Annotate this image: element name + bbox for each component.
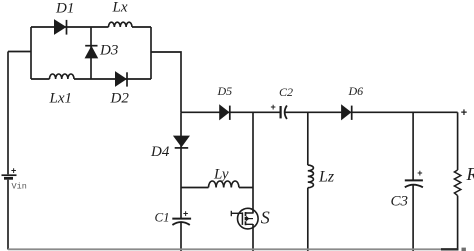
svg-text:D3: D3: [99, 43, 118, 59]
svg-text:C1: C1: [155, 210, 170, 225]
svg-text:+: +: [461, 107, 467, 119]
inductor Lx: [109, 22, 133, 27]
svg-text:Vin: Vin: [12, 182, 27, 192]
diode D6: [342, 105, 352, 120]
battery Vin: [2, 52, 17, 250]
wire input loop bottom branch: [31, 78, 151, 80]
output minus mark bottom-right: [462, 248, 466, 251]
inductor Lx1: [50, 74, 75, 79]
main horizontal wire (right of C2): [286, 111, 458, 113]
svg-text:D2: D2: [110, 91, 130, 107]
svg-text:Ly: Ly: [213, 167, 229, 183]
capacitor C3: [405, 180, 423, 251]
svg-text:R: R: [466, 164, 474, 184]
svg-text:D6: D6: [348, 84, 364, 98]
svg-text:D4: D4: [150, 144, 170, 160]
svg-text:+: +: [183, 209, 188, 219]
wire right tap to main node: [151, 52, 181, 112]
inductor Lz: [308, 165, 314, 188]
wire Lz branch upper: [307, 112, 309, 165]
wire C3 branch upper: [412, 112, 414, 180]
svg-text:+: +: [417, 168, 422, 178]
svg-text:C3: C3: [391, 194, 409, 210]
svg-text:Lx: Lx: [112, 0, 128, 15]
inductor Ly: [209, 181, 239, 188]
wire switch branch upper: [252, 112, 254, 213]
main horizontal wire (left of C2): [181, 111, 280, 113]
diode D1: [55, 20, 67, 35]
bottom wire dark segment near right corner: [441, 248, 459, 250]
wire input loop left side: [30, 27, 32, 79]
wire Ly branch: [181, 187, 253, 189]
capacitor C1: [172, 219, 191, 251]
bottom return wire: [8, 248, 441, 250]
svg-text:D5: D5: [217, 84, 233, 98]
diode D3 (pointing up): [85, 46, 97, 58]
svg-text:C2: C2: [279, 85, 293, 99]
wire input loop top branch: [31, 26, 151, 28]
wire right edge upper: [457, 112, 459, 170]
diode D5: [220, 105, 230, 120]
switch S (MOSFET in circle): [231, 208, 258, 229]
svg-text:D1: D1: [55, 1, 74, 17]
svg-text:Lx1: Lx1: [49, 91, 73, 107]
resistor R: [454, 170, 460, 196]
wire D4/C1 branch vertical: [180, 112, 182, 218]
svg-text:S: S: [261, 208, 270, 228]
svg-text:+: +: [11, 166, 16, 176]
diode D2: [116, 72, 128, 87]
svg-text:Lz: Lz: [318, 169, 335, 186]
wire battery-top to input loop: [8, 51, 31, 53]
wire right edge lower: [457, 196, 459, 250]
wire switch branch lower: [252, 224, 254, 251]
wire input loop middle vertical: [90, 27, 92, 79]
svg-text:+: +: [271, 102, 276, 112]
wire Lz branch lower: [307, 188, 309, 251]
capacitor C2: [281, 106, 287, 120]
wire input loop right side: [150, 27, 152, 79]
diode D4 (pointing down): [174, 136, 189, 148]
